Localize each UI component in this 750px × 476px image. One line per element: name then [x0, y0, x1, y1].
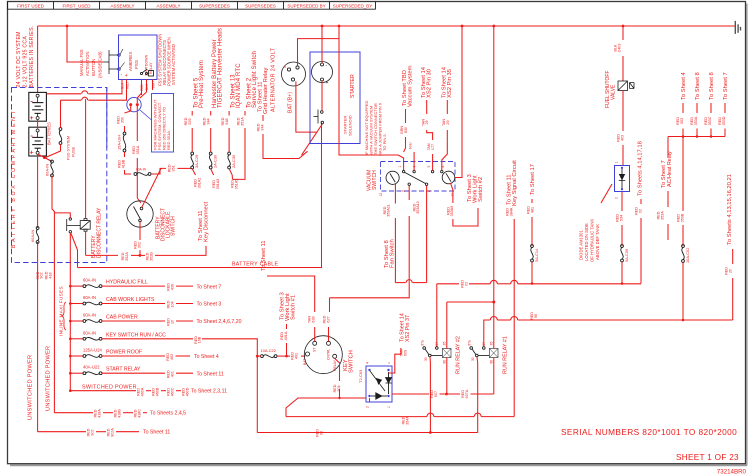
wire 481 to bus	[531, 262, 533, 284]
wire red 354A	[369, 398, 371, 402]
wires vacuum dest stubs	[405, 109, 407, 123]
svg-text:CNTRL: CNTRL	[327, 349, 331, 360]
wire fss fuse top	[60, 100, 62, 127]
svg-text:609: 609	[403, 350, 407, 356]
svg-text:T2-C63: T2-C63	[358, 369, 363, 383]
svg-text:RUN RELAY #2: RUN RELAY #2	[456, 336, 462, 374]
diode AM1301 box	[615, 166, 630, 192]
wire line A	[47, 93, 81, 95]
svg-text:FSS SYSTEM: FSS SYSTEM	[67, 136, 71, 160]
battery B1	[29, 92, 47, 121]
wire battery cable	[78, 123, 322, 268]
svg-text:BATTERY BOX COMPARTMENT: BATTERY BOX COMPARTMENT	[11, 109, 17, 248]
svg-text:5A-C14: 5A-C14	[534, 248, 539, 262]
svg-text:351A: 351A	[136, 145, 140, 154]
svg-text:401: 401	[170, 371, 174, 377]
svg-text:BUTTON: BUTTON	[91, 59, 96, 76]
wire bus drop 339 to vacuum pin1	[339, 26, 404, 170]
svg-text:ASSEMBLY: ASSEMBLY	[157, 4, 181, 9]
svg-text:To Sheet 8: To Sheet 8	[695, 72, 701, 100]
svg-text:60A-IN: 60A-IN	[83, 330, 96, 335]
wire solenoid diagonal	[302, 124, 323, 155]
svg-text:To Sheet 4: To Sheet 4	[194, 354, 219, 360]
svg-text:SHEET 1 OF 23: SHEET 1 OF 23	[676, 453, 739, 462]
wire right cluster bar	[668, 136, 725, 138]
wire red351 to fuse1	[178, 167, 191, 169]
svg-text:491: 491	[294, 353, 298, 359]
starter box	[310, 52, 360, 144]
svg-text:353D: 353D	[722, 116, 726, 125]
wire 353B to red96	[682, 263, 684, 321]
amerex FSS box	[119, 35, 158, 80]
wire c22 to keyswitch	[277, 355, 290, 357]
svg-text:30: 30	[471, 357, 475, 361]
wire 87-2 feed drop	[436, 284, 438, 347]
svg-text:+: +	[30, 150, 34, 157]
svg-text:353B: 353B	[680, 213, 684, 222]
svg-text:HYDRAULIC FILL: HYDRAULIC FILL	[106, 280, 148, 286]
svg-text:902A: 902A	[110, 428, 114, 437]
svg-text:353C: 353C	[708, 116, 712, 125]
wire fss fuse bottom	[46, 144, 61, 157]
svg-text:73214BR0: 73214BR0	[717, 469, 747, 476]
svg-text:SOLENOID: SOLENOID	[348, 115, 353, 136]
svg-text:403: 403	[620, 135, 624, 141]
svg-text:96: 96	[319, 431, 323, 435]
svg-text:SWITCH: SWITCH	[372, 170, 378, 190]
wire relay to battery cable	[71, 233, 78, 268]
svg-text:STARTER: STARTER	[350, 74, 356, 98]
svg-text:60A-IN: 60A-IN	[136, 168, 147, 172]
manual FSS activation button	[104, 50, 120, 74]
vacuum switch connectors	[386, 170, 455, 185]
svg-text:351: 351	[171, 165, 175, 171]
wire red96 upper	[484, 320, 491, 347]
svg-text:To Sheet 11: To Sheet 11	[143, 430, 170, 436]
svg-text:2-12 VOLT 925 CCA: 2-12 VOLT 925 CCA	[23, 36, 29, 88]
svg-text:TO PIN 5.: TO PIN 5.	[382, 133, 387, 151]
wire key signal drop	[513, 219, 515, 417]
svg-text:N/U: N/U	[409, 142, 413, 149]
wire grid heater stub	[262, 115, 264, 121]
svg-text:60A-IN: 60A-IN	[45, 164, 50, 176]
svg-text:3A-C29: 3A-C29	[194, 155, 199, 168]
svg-text:FIRST USED: FIRST USED	[17, 4, 44, 9]
row5 tail	[102, 355, 165, 357]
svg-text:344: 344	[260, 124, 264, 130]
wire t2 pin1 right	[392, 393, 429, 395]
wire red 607A	[471, 393, 494, 395]
svg-text:353A11: 353A11	[387, 204, 391, 216]
svg-text:WHT: WHT	[152, 81, 156, 88]
wire starter neg	[321, 26, 323, 63]
wire valve top	[622, 26, 624, 40]
svg-text:15A-U04: 15A-U04	[117, 134, 122, 150]
svg-text:Switch #2: Switch #2	[478, 177, 484, 202]
wire diode down	[621, 192, 623, 211]
wire outer unswitched	[37, 242, 39, 432]
svg-text:CAB POWER: CAB POWER	[106, 315, 138, 321]
wire red02 bus	[437, 283, 459, 285]
wire relay1 30 drop	[476, 357, 479, 433]
svg-text:INLINE MAXI FUSES: INLINE MAXI FUSES	[59, 286, 64, 336]
wires into vacuum switch top	[413, 152, 415, 170]
wire keyswitch ST up	[314, 327, 316, 341]
svg-text:350: 350	[120, 117, 124, 123]
wire c22 branch down	[256, 356, 258, 432]
wire diode to bus	[621, 262, 623, 284]
svg-text:C403: C403	[617, 44, 621, 53]
wire relay coil out	[85, 231, 87, 255]
switched power run	[70, 390, 136, 392]
svg-text:491A: 491A	[284, 331, 288, 340]
svg-text:AC/Heat Relay: AC/Heat Relay	[667, 151, 673, 187]
wire line B	[61, 99, 82, 101]
wire keyswitch relay down	[335, 358, 340, 381]
wire relay feed bar	[447, 301, 494, 303]
wire vac pin2 down	[408, 186, 410, 201]
ground	[735, 21, 740, 34]
svg-text:607: 607	[434, 391, 438, 397]
svg-text:2A-C30: 2A-C30	[231, 154, 236, 168]
svg-text:+: +	[326, 80, 329, 86]
wire pigtails into connector	[137, 93, 141, 103]
svg-text:ABOVE DEF TANK: ABOVE DEF TANK	[595, 224, 600, 260]
svg-text:353A10: 353A10	[416, 201, 420, 214]
fuel shutoff valve	[618, 81, 634, 91]
wire 481 drop	[531, 199, 533, 203]
svg-text:96: 96	[534, 314, 538, 318]
svg-text:460C: 460C	[170, 387, 174, 396]
svg-text:351A5: 351A5	[234, 179, 238, 190]
wire right stub drop	[732, 249, 734, 264]
wire button to amerex	[120, 49, 123, 54]
svg-text:384A: 384A	[509, 207, 513, 216]
svg-text:SWITCHED POWER: SWITCHED POWER	[82, 385, 137, 391]
svg-text:902: 902	[40, 272, 44, 278]
svg-text:BLK: BLK	[121, 82, 125, 89]
svg-text:2: 2	[401, 190, 405, 192]
svg-text:534: 534	[619, 215, 623, 221]
svg-text:SUPERSEDED BY: SUPERSEDED BY	[287, 4, 325, 9]
svg-text:1: 1	[398, 166, 402, 168]
wire alternator B+	[296, 81, 317, 132]
starter solenoid	[314, 110, 324, 124]
svg-text:1: 1	[387, 406, 391, 408]
wire vac pin6 down	[426, 186, 428, 283]
svg-text:302: 302	[137, 242, 141, 248]
wire button feed	[67, 26, 104, 62]
svg-text:+: +	[30, 115, 34, 122]
battery disconnect relay	[67, 218, 91, 233]
svg-text:SUPERSEDED_BY: SUPERSEDED_BY	[333, 4, 373, 9]
wire 353B drop	[682, 137, 684, 212]
svg-text:87a: 87a	[467, 340, 471, 346]
svg-text:XS2 Pin 35: XS2 Pin 35	[447, 69, 453, 98]
svg-text:BLK: BLK	[145, 83, 149, 90]
svg-text:60A-IN: 60A-IN	[83, 278, 96, 283]
wire connector right chain	[136, 106, 138, 141]
svg-text:Pre-Heat System: Pre-Heat System	[199, 60, 205, 108]
wire vac pin10 down	[451, 183, 453, 203]
row1 tail	[102, 285, 165, 287]
svg-text:ST: ST	[313, 348, 317, 352]
svg-text:353A: 353A	[694, 116, 698, 125]
title block header row	[8, 8, 376, 10]
svg-text:29: 29	[425, 120, 429, 124]
svg-text:ASSEMBLY: ASSEMBLY	[111, 4, 135, 9]
svg-text:627: 627	[326, 316, 330, 322]
run relay #2	[423, 347, 426, 350]
svg-text:24 VOLT DC SYSTEM: 24 VOLT DC SYSTEM	[16, 31, 22, 87]
wire batteries series link	[37, 120, 39, 130]
node battery diag	[38, 154, 52, 162]
svg-text:DISCONNECT RELAY: DISCONNECT RELAY	[97, 207, 103, 258]
svg-text:START RELAY: START RELAY	[106, 367, 141, 373]
svg-text:418A: 418A	[97, 409, 101, 418]
unswitched run inner	[54, 412, 93, 414]
svg-text:85: 85	[442, 341, 446, 345]
svg-text:460A: 460A	[140, 387, 144, 396]
svg-text:4: 4	[366, 362, 370, 364]
wire valve down	[622, 91, 624, 132]
svg-text:60A-IN: 60A-IN	[83, 313, 96, 318]
svg-text:1: 1	[615, 162, 619, 164]
svg-text:648: 648	[225, 118, 229, 124]
svg-text:SERIAL NUMBERS 820*1001 TO 820: SERIAL NUMBERS 820*1001 TO 820*2000	[561, 427, 737, 437]
fuse 2A-C30 b	[228, 152, 231, 155]
svg-text:CAB WORK LIGHTS: CAB WORK LIGHTS	[106, 297, 155, 303]
svg-text:+: +	[125, 73, 128, 79]
svg-text:391A3: 391A3	[216, 179, 220, 190]
svg-text:5: 5	[427, 166, 431, 168]
amerex relay contact	[140, 69, 153, 76]
key switch	[304, 336, 342, 374]
svg-text:SUPERSEDES: SUPERSEDES	[199, 4, 230, 9]
svg-text:MANUAL FSS: MANUAL FSS	[79, 49, 84, 76]
fuse 5A-C14	[531, 245, 534, 248]
svg-text:SUPERSEDES: SUPERSEDES	[245, 4, 276, 9]
wire relay2 coil feed	[446, 302, 448, 348]
svg-text:ACTIVATION: ACTIVATION	[85, 51, 90, 76]
svg-text:40A-U22: 40A-U22	[83, 365, 100, 370]
svg-text:87a: 87a	[420, 340, 424, 346]
svg-text:BAT: BAT	[303, 359, 307, 365]
wire red02 col	[640, 199, 642, 204]
svg-text:20: 20	[728, 269, 732, 273]
wires red353 drops	[682, 129, 684, 137]
wire red352 run	[86, 254, 118, 256]
svg-text:BAT (B+): BAT (B+)	[288, 92, 294, 113]
alternator	[282, 62, 306, 86]
svg-text:SWITCH: SWITCH	[349, 350, 355, 373]
row2 tail	[102, 303, 165, 305]
wire relay lower contact out	[69, 233, 71, 286]
svg-text:125A-U24: 125A-U24	[83, 348, 103, 353]
svg-text:Key Disconnect: Key Disconnect	[204, 201, 210, 242]
leader diode note	[601, 184, 612, 203]
fuse 60A-IN inner	[51, 160, 54, 163]
svg-text:10: 10	[170, 320, 174, 324]
svg-text:To Sheets 4,14,17,18: To Sheets 4,14,17,18	[638, 141, 644, 196]
svg-text:To Sheet 2,4,6,7,20: To Sheet 2,4,6,7,20	[197, 319, 242, 325]
wire keyswitch CNTRL up	[328, 327, 330, 341]
svg-text:460B: 460B	[155, 387, 159, 396]
svg-text:UNSWITCHED POWER: UNSWITCHED POWER	[46, 346, 52, 411]
fuse 60A-IN outer	[36, 227, 39, 230]
svg-text:830: 830	[404, 127, 408, 133]
fuse 10A-C02	[682, 245, 685, 248]
wire connector left chain top	[125, 106, 131, 113]
svg-text:104: 104	[170, 301, 174, 307]
svg-text:351A: 351A	[240, 117, 244, 126]
svg-text:2A-C30: 2A-C30	[213, 154, 218, 168]
wire starter pos to solenoid	[321, 81, 323, 111]
svg-text:5A-C09: 5A-C09	[624, 249, 629, 262]
wire switch bottom	[139, 222, 141, 240]
svg-text:529: 529	[188, 118, 192, 124]
svg-text:Fan Switch: Fan Switch	[390, 239, 396, 268]
svg-text:60A-IN: 60A-IN	[30, 230, 35, 242]
svg-text:463: 463	[170, 354, 174, 360]
svg-text:Vaccum System: Vaccum System	[408, 65, 414, 107]
run relay #1	[470, 347, 473, 350]
svg-text:02: 02	[464, 282, 468, 286]
svg-text:354A: 354A	[405, 416, 409, 425]
svg-text:To Sheet 11: To Sheet 11	[197, 371, 224, 377]
wire bus drop 462	[455, 26, 462, 178]
svg-text:344: 344	[206, 118, 210, 124]
svg-text:To Sheet 2,3,11: To Sheet 2,3,11	[191, 389, 227, 395]
wire vac pin12 down	[394, 183, 396, 203]
svg-text:86: 86	[489, 360, 493, 364]
svg-text:436: 436	[170, 284, 174, 290]
svg-text:418B: 418B	[121, 159, 125, 168]
svg-text:AMEREX: AMEREX	[128, 52, 133, 71]
svg-text:353A: 353A	[660, 211, 664, 220]
svg-text:To Sheet 3: To Sheet 3	[197, 302, 222, 308]
svg-text:KEY SWITCH RUN / ACC: KEY SWITCH RUN / ACC	[106, 332, 166, 338]
svg-text:RELAY: RELAY	[333, 359, 337, 371]
svg-text:2: 2	[615, 197, 619, 199]
wire red 96 lower	[257, 432, 477, 434]
fuse 15A-U04	[123, 132, 126, 135]
svg-text:177: 177	[431, 144, 435, 150]
svg-text:To Sheet 11: To Sheet 11	[261, 240, 267, 271]
wires cols to fuse tops	[191, 137, 193, 152]
T2-C63 box	[366, 366, 392, 402]
wire chain mid	[124, 126, 126, 132]
wire relay1 coil feed	[493, 302, 495, 348]
svg-text:BATTERY CABLE: BATTERY CABLE	[232, 262, 279, 268]
wire red351 elbow	[151, 168, 166, 174]
svg-text:BATTERIES IN SERIES.: BATTERIES IN SERIES.	[29, 26, 35, 88]
battery B2	[29, 127, 47, 156]
svg-text:To Sheet 7: To Sheet 7	[723, 72, 729, 100]
svg-text:Switch #1: Switch #1	[291, 295, 297, 320]
svg-text:353: 353	[680, 118, 684, 124]
svg-text:SWITCH: SWITCH	[171, 216, 177, 236]
svg-text:02: 02	[638, 209, 642, 213]
svg-text:6: 6	[428, 190, 432, 192]
row4 tail	[102, 338, 193, 340]
svg-text:12: 12	[379, 193, 383, 197]
svg-text:To Sheet 8: To Sheet 8	[709, 72, 715, 100]
svg-text:85: 85	[489, 341, 493, 345]
starter motor	[312, 62, 333, 83]
wire top 24V bus	[38, 25, 735, 27]
svg-text:LOCATED ON SIDE: LOCATED ON SIDE	[584, 223, 589, 261]
wire relay coil outs	[446, 358, 448, 394]
svg-text:304: 304	[337, 385, 341, 391]
fuse 2A-C30 a	[209, 152, 212, 155]
row3 tail	[102, 320, 165, 322]
fuse rows block	[70, 285, 83, 287]
svg-text:352B: 352B	[149, 252, 153, 261]
wire relay coil feed	[85, 99, 87, 219]
fuse FSS system	[59, 128, 62, 131]
svg-text:418C: 418C	[137, 409, 141, 418]
svg-text:352A: 352A	[125, 252, 129, 261]
wire relay contact feed	[54, 213, 70, 218]
wire wl1 stub	[286, 324, 288, 329]
svg-text:2: 2	[366, 406, 370, 408]
battery box compartment (dashed)	[12, 88, 107, 263]
svg-text:To Sheet 7: To Sheet 7	[197, 284, 222, 290]
unswitched run outer	[38, 431, 86, 433]
compartment right edge solid	[106, 88, 108, 149]
wire cluster left drop	[667, 137, 669, 158]
svg-text:460D: 460D	[185, 387, 189, 396]
svg-text:628: 628	[311, 316, 315, 322]
svg-text:DIODE AM1301: DIODE AM1301	[579, 230, 584, 260]
svg-text:FUSE: FUSE	[72, 146, 76, 157]
svg-text:418: 418	[48, 272, 52, 278]
svg-text:To Sheets 2,4,5: To Sheets 2,4,5	[150, 411, 186, 417]
wire pin6 to keyswitch link	[395, 282, 405, 284]
svg-text:POWER ROOF: POWER ROOF	[106, 350, 142, 356]
wires amerex pigtails	[121, 80, 123, 91]
svg-text:ALTERNATOR 24 VOLT: ALTERNATOR 24 VOLT	[271, 47, 277, 112]
vacuum switch box	[381, 162, 456, 192]
svg-text:30: 30	[424, 357, 428, 361]
wire t2 pin3 up	[389, 348, 401, 373]
svg-text:To Sheet 4: To Sheet 4	[681, 72, 687, 100]
fuse 60A-IN horizontal	[134, 173, 137, 176]
svg-text:FSS: FSS	[134, 60, 139, 69]
wire battery feed drop	[37, 26, 39, 93]
svg-text:VALVE: VALVE	[611, 84, 617, 100]
svg-text:RELAY: RELAY	[149, 62, 153, 74]
connector circle	[127, 97, 141, 111]
wire acheat stub	[667, 191, 669, 207]
note box for machines without FSS	[152, 94, 174, 153]
svg-text:607A: 607A	[465, 389, 469, 398]
svg-text:902: 902	[90, 429, 94, 435]
svg-text:RED: RED	[140, 84, 144, 91]
svg-text:UNSWITCHED POWER: UNSWITCHED POWER	[28, 355, 34, 420]
svg-text:To Sheets 4,13,15,16,20,21: To Sheets 4,13,15,16,20,21	[727, 174, 733, 245]
wire to switch top	[137, 158, 141, 203]
svg-text:16B: 16B	[198, 336, 202, 343]
svg-text:10A-C02: 10A-C02	[685, 248, 690, 263]
svg-text:SYSTEM ACTIVATED: SYSTEM ACTIVATED	[171, 44, 176, 85]
wire fuse bus vertical	[69, 286, 71, 391]
fuse 5A-C09	[621, 245, 624, 248]
svg-text:XS2 Pin 37: XS2 Pin 37	[405, 315, 411, 342]
svg-text:10A-C22: 10A-C22	[261, 348, 276, 353]
wire inner unswitched	[52, 176, 54, 413]
